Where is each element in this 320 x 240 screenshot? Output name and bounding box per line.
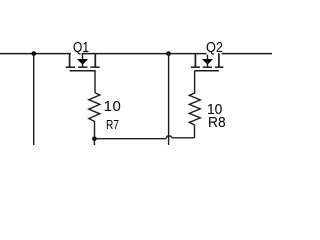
Q1 channel plate 1 [66, 66, 75, 68]
wire bottom right segment [172, 137, 194, 139]
R7 zigzag [89, 93, 100, 139]
resistor R7 [89, 93, 100, 139]
R8 zigzag [189, 71, 200, 138]
Q2 channel plate 3 [215, 66, 224, 68]
transistor Q1 [66, 53, 100, 92]
wire bottom left segment [94, 138, 165, 140]
wire middle vertical bus [168, 53, 170, 145]
Q2 left leg (drain) [194, 53, 196, 66]
Q2 right leg (source) [218, 53, 220, 66]
Q2 body arrow head [202, 59, 213, 65]
node A junction dot on rail [31, 51, 36, 56]
wire hop over middle bus [166, 136, 173, 139]
transistor Q2 [191, 53, 224, 71]
Q1 body arrow head [77, 59, 88, 65]
label Q2 designator [206, 40, 223, 55]
resistor R8 [189, 71, 200, 138]
Q2 body arrow shaft [207, 55, 209, 67]
wire left vertical bus [33, 53, 35, 145]
label R7 designator [106, 118, 119, 131]
Q2 channel plate 1 [191, 66, 200, 68]
Q1 channel plate 2 [78, 66, 87, 68]
Q2 gate bar (lead continues from R8 top) [195, 70, 219, 72]
wire top rail right segment [222, 53, 272, 55]
Q1 body arrow shaft [82, 53, 84, 67]
Q1 channel plate 3 [90, 66, 99, 68]
label R8 designator [208, 115, 226, 130]
Q1 gate bar and gate lead [70, 71, 95, 93]
wire top rail left segment [0, 53, 71, 55]
Q1 right leg (drain) [94, 53, 96, 66]
Q2 channel plate 2 [203, 66, 212, 68]
wire stub below node C [93, 139, 95, 145]
node B junction dot on rail [166, 51, 171, 56]
label Q1 designator [73, 40, 89, 55]
label R8 value 10 [207, 102, 222, 117]
Q1 left leg (source) [69, 53, 71, 66]
wire top rail middle segment [82, 53, 207, 55]
label R7 value 10 [104, 99, 122, 114]
node C junction dot at R7 bottom [92, 137, 97, 142]
